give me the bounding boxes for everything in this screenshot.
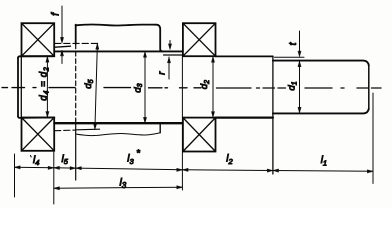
svg-text:l2: l2	[226, 154, 233, 166]
hub bottom right face stub	[159, 123, 161, 133]
dimension f lower line with up arrow	[61, 52, 63, 64]
svg-text:d1: d1	[287, 81, 299, 90]
seat edge line under break-out bottom	[76, 128, 99, 131]
right bearing left face extension line down	[181, 55, 183, 190]
svg-text:l3: l3	[120, 177, 127, 190]
svg-text:l3: l3	[127, 154, 134, 166]
svg-text:*: *	[136, 148, 140, 159]
stray tick before l4	[29, 155, 32, 157]
hub left face hidden continuation dashed	[75, 44, 77, 120]
dimension d5 vertical line with arrows	[95, 43, 98, 129]
dimension f upper line with down arrow	[61, 6, 63, 40]
shaft d3 bottom surface	[54, 122, 182, 124]
svg-text:d4 = d2: d4 = d2	[39, 67, 51, 101]
dimension d2 vertical line with arrows	[212, 57, 214, 118]
svg-text:l4: l4	[33, 155, 39, 167]
step face d2 to d1 with extension line	[272, 56, 274, 174]
dimension d4 vertical line with arrows	[46, 56, 48, 117]
dimension d3 vertical line with arrows	[144, 52, 146, 124]
svg-text:f: f	[51, 12, 62, 16]
shaft d1 bottom surface	[273, 109, 369, 114]
label d1	[287, 81, 299, 90]
shaft d4 seat top surface	[18, 56, 54, 58]
bearing left top square	[22, 23, 55, 56]
hidden seat diameter d5 dashed top	[55, 42, 101, 44]
svg-text:t: t	[288, 41, 299, 45]
hub left face	[75, 25, 77, 44]
bearing right bottom square	[183, 118, 216, 152]
shoulder face at bearing right side	[53, 44, 55, 57]
shaft d2 seat bottom surface right	[216, 116, 273, 118]
dimension row l1	[273, 170, 373, 173]
dimension t upper line with down arrow	[299, 31, 301, 52]
svg-text:d5: d5	[83, 79, 95, 88]
label d4 = d2	[39, 67, 51, 101]
d2 surface line left of right bearing	[164, 54, 183, 56]
label d3	[132, 83, 144, 92]
extension line bearing face l4 l5 l3	[53, 152, 55, 204]
shaft left end face	[17, 58, 19, 117]
hub break-out wavy line	[76, 133, 161, 136]
dimension r lower line with up arrow	[168, 57, 170, 79]
bearing left bottom cross X	[22, 118, 55, 151]
label d2	[199, 80, 211, 89]
extension line right end l1	[372, 93, 374, 184]
shaft d1 top surface	[273, 61, 369, 66]
bearing right bottom cross X	[183, 118, 216, 152]
dimension d1 vertical line with arrows	[299, 61, 301, 113]
svg-text:d3: d3	[132, 83, 144, 92]
bearing right top cross X	[183, 23, 216, 56]
label d5	[83, 79, 95, 88]
shaft d4 seat bottom surface	[18, 116, 54, 118]
bearing left top cross X	[22, 23, 55, 56]
hub left face lower stub and extension line	[75, 120, 77, 180]
dimension row l5	[54, 167, 76, 169]
keyway depth reference line	[275, 56, 305, 58]
hidden seat diameter d5 dashed bottom	[55, 129, 76, 132]
svg-text:d2: d2	[199, 80, 211, 89]
wire center axis dash-dot line	[2, 87, 381, 89]
bearing right top square	[183, 23, 216, 56]
dimension row l3	[54, 187, 183, 188]
hub right face	[160, 29, 162, 52]
shaft d2 seat top surface right	[216, 55, 273, 57]
seat chamfer edge line top	[55, 46, 70, 47]
bearing left bottom square	[22, 118, 55, 151]
dimension r upper line with down arrow	[169, 41, 171, 47]
shaft right end face	[368, 65, 370, 108]
extension line left end l4	[14, 154, 16, 197]
dimension row l2	[182, 169, 273, 172]
svg-text:r: r	[157, 71, 168, 75]
svg-text:l1: l1	[321, 155, 327, 167]
shaft d3 surface top (hub seat line)	[54, 50, 182, 52]
svg-text:l5: l5	[62, 154, 69, 166]
dimension row l4	[15, 166, 54, 169]
hub top outline freehand	[76, 25, 161, 29]
shaft left chamfer line	[20, 57, 22, 117]
dimension row l3star	[76, 168, 183, 170]
